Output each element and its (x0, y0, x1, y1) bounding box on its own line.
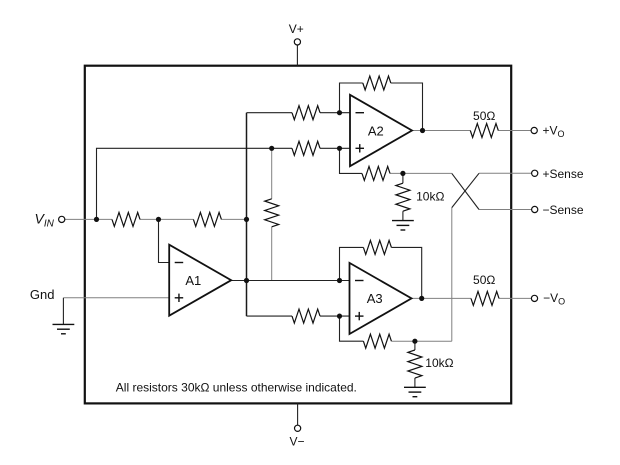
svg-text:+Sense: +Sense (543, 167, 584, 181)
svg-text:10kΩ: 10kΩ (416, 189, 444, 203)
svg-text:Gnd: Gnd (30, 287, 55, 302)
svg-text:A2: A2 (368, 124, 384, 139)
svg-text:10kΩ: 10kΩ (425, 356, 453, 370)
svg-text:50Ω: 50Ω (473, 109, 495, 123)
svg-text:V−: V− (289, 435, 304, 449)
svg-text:All resistors 30kΩ unless othe: All resistors 30kΩ unless otherwise indi… (116, 381, 357, 395)
svg-text:V+: V+ (289, 22, 304, 36)
svg-text:−Sense: −Sense (543, 203, 584, 217)
svg-text:A1: A1 (185, 273, 201, 288)
svg-text:+VO: +VO (543, 124, 565, 140)
svg-text:−VO: −VO (543, 291, 565, 307)
svg-text:A3: A3 (367, 291, 383, 306)
svg-text:VIN: VIN (35, 211, 55, 230)
svg-text:50Ω: 50Ω (473, 273, 495, 287)
